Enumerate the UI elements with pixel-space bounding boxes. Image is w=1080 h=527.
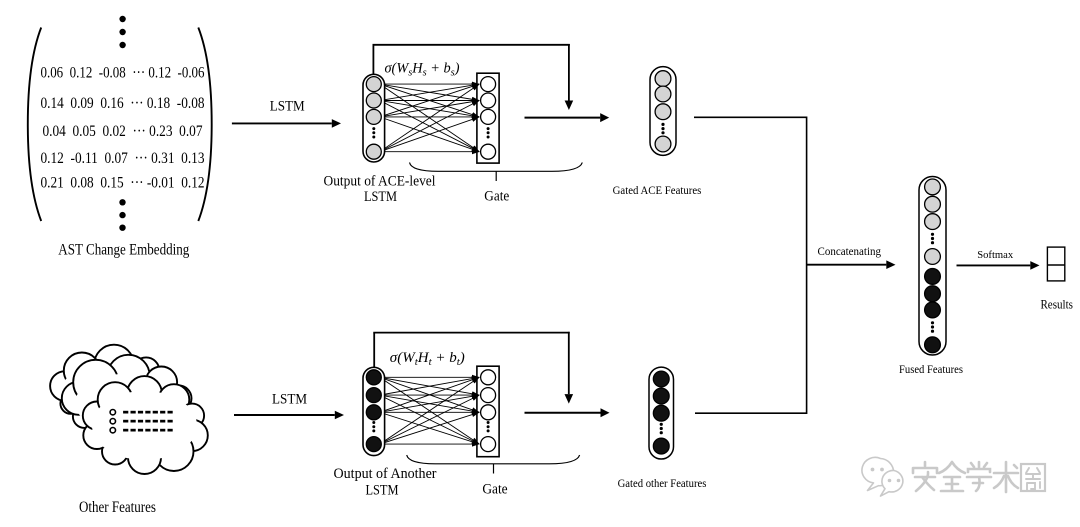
svg-text:Softmax: Softmax [977, 249, 1013, 261]
svg-text:0.21 0.08 0.15 ··· -0.01 0: 0.21 0.08 0.15 ··· -0.01 0.12 [41, 174, 205, 192]
svg-text:Gate: Gate [482, 482, 508, 498]
svg-text:0.06 0.12 -0.08 ··· 0.12 -: 0.06 0.12 -0.08 ··· 0.12 -0.06 [41, 64, 205, 82]
svg-text:Gate: Gate [484, 188, 509, 204]
svg-text:Results: Results [1040, 298, 1073, 312]
svg-text:0.12 -0.11 0.07 ··· 0.31 0: 0.12 -0.11 0.07 ··· 0.31 0.13 [41, 149, 205, 167]
svg-text:Concatenating: Concatenating [818, 246, 882, 258]
svg-text:Output of ACE-level: Output of ACE-level [324, 174, 436, 190]
svg-text:Gated ACE Features: Gated ACE Features [613, 183, 702, 197]
svg-text:Gated other Features: Gated other Features [618, 476, 707, 490]
svg-text:0.04 0.05 0.02 ··· 0.23 0.: 0.04 0.05 0.02 ··· 0.23 0.07 [43, 122, 203, 140]
svg-text:Output of Another: Output of Another [334, 466, 437, 482]
svg-text:Fused Features: Fused Features [899, 364, 963, 376]
svg-text:LSTM: LSTM [364, 189, 397, 205]
svg-text:LSTM: LSTM [366, 482, 399, 498]
svg-text:LSTM: LSTM [270, 99, 305, 115]
svg-text:σ(WtHt + bt): σ(WtHt + bt) [390, 350, 465, 368]
svg-text:Other Features: Other Features [79, 499, 156, 516]
svg-text:0.14 0.09 0.16 ··· 0.18 -0: 0.14 0.09 0.16 ··· 0.18 -0.08 [41, 94, 205, 112]
svg-text:AST Change Embedding: AST Change Embedding [58, 242, 189, 259]
svg-text:σ(WsHs + bs): σ(WsHs + bs) [385, 61, 460, 79]
svg-text:LSTM: LSTM [272, 392, 307, 408]
